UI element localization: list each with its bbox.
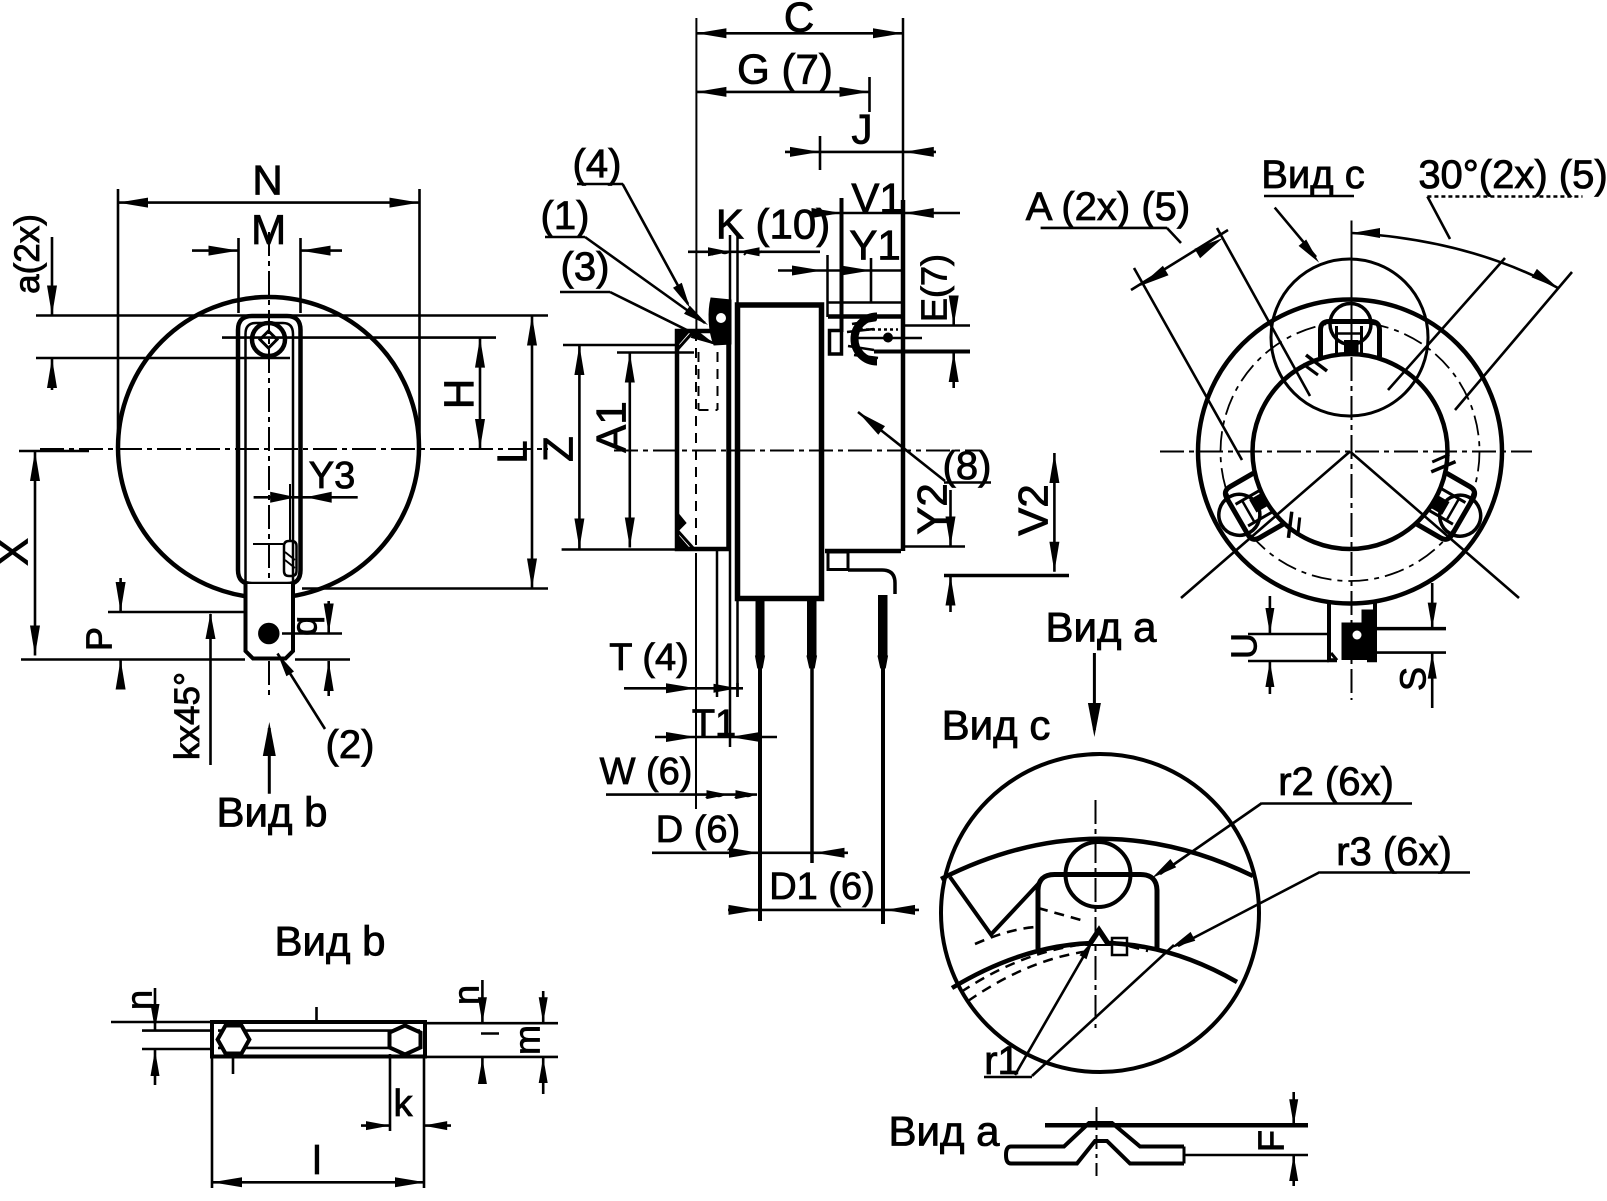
seal blob at body front top (filled)	[709, 298, 731, 345]
C left extension line	[695, 18, 697, 331]
svg-text:A (2x) (5): A (2x) (5)	[1026, 185, 1190, 229]
view a top plate line	[1045, 1123, 1308, 1128]
q extension lines	[282, 632, 342, 635]
rear cable clamp top plate	[828, 314, 901, 319]
top bayonet lug group	[1303, 304, 1380, 376]
dimension T line	[624, 687, 743, 690]
front gasket plate left line	[729, 235, 732, 747]
right view horizontal centerline	[1160, 451, 1532, 453]
bottom tab of left view	[246, 584, 294, 659]
view b bar outline	[212, 1022, 425, 1057]
svg-text:C: C	[784, 0, 814, 41]
detail shell inner arc	[952, 943, 1237, 988]
A dimension extension line 1	[1217, 228, 1310, 396]
item leader (4)	[623, 184, 688, 304]
dimension H line	[479, 338, 482, 449]
spring capsule seen in slot	[284, 541, 297, 576]
middle view body outline	[738, 305, 822, 599]
svg-text:a(2x): a(2x)	[8, 214, 47, 294]
E top extension line	[905, 324, 970, 327]
dimension P line and arrows	[119, 578, 122, 612]
cable grommet C-shape with hatch	[855, 317, 877, 362]
left view vertical centerline	[268, 232, 270, 700]
dimension Y1 line	[778, 269, 905, 272]
svg-text:(3): (3)	[561, 245, 610, 289]
Y3 extension line to capsule	[289, 484, 291, 540]
svg-text:P: P	[78, 627, 119, 651]
middle view centerline	[614, 450, 980, 452]
right view bottom tab	[1329, 600, 1337, 660]
dimension U line and arrows	[1269, 596, 1272, 634]
bayonet slot edge lines lower left	[1181, 452, 1350, 599]
a(2x) lower reference line	[36, 357, 290, 360]
svg-text:q: q	[283, 616, 324, 636]
Z bottom extension line	[562, 548, 679, 551]
T right extension tick	[736, 683, 739, 697]
dimension Z line	[578, 345, 581, 549]
view b left extension lines	[142, 1029, 212, 1032]
left view keyway slot inner line	[246, 323, 294, 584]
item leader (8)	[858, 412, 945, 481]
svg-text:l: l	[313, 1139, 322, 1183]
detail pin ball circle	[1066, 842, 1131, 907]
dimension Y2 line	[949, 490, 952, 547]
contact pin 2 thick	[807, 599, 817, 657]
dimension X line	[34, 451, 37, 656]
G right extension tick	[868, 77, 871, 112]
detail center peak mark	[1087, 927, 1111, 945]
A label leader	[1167, 228, 1181, 243]
svg-text:(8): (8)	[943, 444, 992, 488]
detail lug hat outline	[1038, 875, 1157, 950]
svg-text:F: F	[1250, 1130, 1291, 1152]
view b bar center tick	[315, 1007, 318, 1021]
svg-text:D (6): D (6)	[656, 809, 740, 851]
30 degree angular dimension arc	[1352, 233, 1558, 288]
clamp screw shank / V1 extension	[840, 198, 844, 332]
front plate right line / body edge extension	[736, 235, 739, 305]
svg-text:m: m	[506, 1025, 547, 1055]
detail small anchor rect	[1112, 938, 1127, 955]
svg-text:H: H	[436, 379, 483, 409]
svg-text:W (6): W (6)	[600, 751, 693, 793]
H top extension line through screw center	[222, 336, 496, 339]
leader r1 double	[1015, 940, 1093, 1075]
svg-text:r3 (6x): r3 (6x)	[1336, 830, 1452, 874]
svg-text:U: U	[1223, 633, 1264, 659]
J left extension tick	[819, 136, 822, 170]
dimension N line	[118, 201, 420, 204]
detail hidden spring dashed curves	[961, 944, 1086, 992]
bracket lower shelf	[901, 545, 965, 548]
svg-text:X: X	[0, 538, 37, 566]
svg-text:S: S	[1392, 667, 1433, 691]
svg-text:Вид b: Вид b	[216, 789, 327, 836]
dimension N extension lines	[117, 189, 120, 448]
A dimension line with arrows	[1131, 230, 1228, 290]
svg-text:kx45°: kx45°	[168, 672, 207, 760]
contact pin 2 wire	[810, 663, 814, 863]
detail centerline vertical	[1095, 800, 1097, 1028]
svg-text:Вид c: Вид c	[942, 702, 1051, 749]
svg-text:L: L	[489, 440, 536, 463]
svg-text:(2): (2)	[326, 723, 375, 767]
dimension F line and arrows	[1292, 1092, 1295, 1125]
svg-text:k: k	[394, 1083, 414, 1125]
Z top extension line	[563, 344, 677, 347]
view b direction arrow	[268, 728, 271, 794]
svg-text:r2 (6x): r2 (6x)	[1278, 760, 1394, 804]
clamp screw head rectangle	[830, 331, 842, 355]
label 30(2x)(5) leader	[1427, 197, 1450, 240]
left view: connector front, outer circle body	[118, 297, 419, 598]
dimension n left	[154, 988, 157, 1030]
lower-right lug (rotated copy)	[1402, 449, 1502, 551]
dimension k	[361, 1124, 390, 1127]
svg-text:M: M	[251, 206, 286, 253]
svg-text:Z: Z	[535, 436, 582, 462]
dimension T1 line	[655, 736, 777, 739]
svg-text:A1: A1	[588, 401, 635, 452]
svg-text:Вид a: Вид a	[1045, 604, 1157, 651]
dimension K line with wavy arrows	[688, 251, 820, 254]
svg-text:K (10): K (10)	[716, 201, 830, 248]
dimension l line	[212, 1181, 425, 1184]
item leader (2)	[278, 654, 326, 730]
dimension n right	[481, 980, 484, 1023]
item leader (3)	[610, 292, 713, 343]
dimension M extension lines	[237, 238, 240, 313]
lower-left lug (rotated copy)	[1207, 464, 1307, 566]
P top extension line	[108, 611, 245, 614]
30deg vertical reference line	[1351, 221, 1353, 346]
U extension lines	[1248, 633, 1329, 636]
T1 mid extension line	[716, 549, 719, 697]
view b right hexagon	[390, 1026, 421, 1055]
svg-text:V1: V1	[851, 175, 902, 222]
dimension L line	[531, 316, 534, 589]
bracket bottom-right rounded hook	[848, 570, 895, 594]
svg-text:D1 (6): D1 (6)	[769, 866, 875, 908]
detail dashes inside hat	[1038, 908, 1081, 920]
right view inner circle	[1253, 354, 1448, 549]
tab screw dot (filled)	[259, 623, 279, 643]
view c pointer leader arrow	[1275, 208, 1316, 257]
view a centerline	[1096, 1107, 1098, 1176]
dimension V2 line (right view)	[1053, 453, 1056, 572]
flange thread chamfer bottom-left	[677, 530, 694, 549]
right view vertical centerline	[1351, 240, 1353, 700]
view b top/bottom extension lines right	[425, 1022, 558, 1025]
leader r2	[1160, 803, 1262, 874]
dimension M line	[192, 249, 239, 252]
bolt circle dash-dot	[1221, 322, 1480, 581]
30deg inclined extension line	[1455, 272, 1572, 410]
l extension lines	[211, 1057, 214, 1188]
bracket foot step	[828, 552, 848, 570]
svg-text:G (7): G (7)	[737, 46, 833, 93]
a(2x) upper reference line	[36, 314, 548, 317]
rear end plane line	[902, 18, 905, 200]
dimension a(2x) vertical line and arrows	[51, 237, 54, 316]
E bottom extension line	[874, 350, 970, 354]
contact pin 1 wire	[758, 663, 762, 921]
right view outer circle	[1198, 300, 1502, 604]
dimension A1 line	[628, 353, 631, 548]
svg-text:E(7): E(7)	[913, 254, 954, 322]
X bottom extension line	[21, 658, 245, 661]
Y1 extension tick	[870, 258, 873, 302]
left view keyway slot outer outline	[238, 316, 301, 584]
flange thread chamfer top-left	[677, 331, 694, 350]
dimension W line with wavy arrows	[606, 793, 757, 796]
A dimension extension line 2	[1134, 268, 1242, 460]
grommet serrated top edge	[860, 328, 898, 331]
flange thread root dashed line	[695, 331, 697, 549]
dimension G line	[696, 91, 869, 94]
svg-text:n: n	[445, 985, 486, 1005]
svg-text:Y2: Y2	[909, 483, 956, 534]
svg-text:Y1: Y1	[849, 222, 900, 269]
dimension m	[542, 991, 545, 1023]
contact pin 3 thick	[878, 595, 888, 657]
svg-text:T (4): T (4)	[609, 637, 689, 679]
T left extension line	[695, 553, 697, 809]
leader r3	[1178, 872, 1320, 946]
detail shell outer arc	[941, 839, 1253, 879]
view c boundary circle	[1271, 259, 1428, 416]
capsule top reference line	[253, 543, 283, 545]
svg-text:J: J	[852, 106, 873, 153]
bracket lower edge	[825, 549, 901, 554]
item leader (1)	[585, 237, 705, 323]
clamp upper step	[828, 301, 902, 304]
svg-text:Вид с: Вид с	[1261, 153, 1364, 197]
flange hidden keyway dashed	[698, 352, 700, 410]
svg-text:T1: T1	[692, 703, 736, 745]
dimension q line and arrows	[327, 601, 330, 634]
svg-text:N: N	[252, 157, 282, 204]
detail slot notch V	[950, 877, 1041, 935]
k extension lines	[389, 1054, 392, 1131]
kx45 chamfer leader arrow	[209, 614, 212, 765]
dimension Y3 serrated line with facing arrows	[254, 496, 358, 499]
dimension E line	[952, 298, 955, 326]
30deg second construction line	[1388, 258, 1505, 390]
dimension D1 line	[728, 909, 919, 912]
L bottom extension line	[302, 587, 548, 590]
screw head circle at slot top	[252, 323, 285, 356]
svg-text:n: n	[118, 990, 159, 1010]
X top extension line	[19, 450, 89, 453]
A1 top extension line	[617, 351, 694, 354]
svg-text:(4): (4)	[573, 142, 622, 186]
svg-text:Вид b: Вид b	[274, 918, 385, 965]
left view horizontal centerline	[40, 448, 548, 450]
detail view boundary circle	[941, 754, 1259, 1072]
dimension S line and arrows	[1431, 583, 1434, 629]
view b bar inner chamfer lines	[218, 1029, 420, 1032]
dimension C line	[696, 32, 903, 35]
svg-text:(1): (1)	[541, 194, 590, 238]
view a plate bottom right line	[1184, 1154, 1308, 1157]
dimension V1 line	[810, 212, 960, 215]
svg-text:Вид a: Вид a	[888, 1108, 1000, 1155]
view b left hexagon	[218, 1026, 250, 1054]
S extension lines	[1375, 627, 1446, 631]
clamp bracket front edge	[826, 255, 829, 317]
coupling nut flange outline	[677, 331, 729, 549]
svg-text:30°(2x) (5): 30°(2x) (5)	[1418, 153, 1607, 197]
bottom tab screw (filled) with white dot	[1342, 610, 1374, 660]
bayonet slot edge lines lower right	[1350, 452, 1519, 599]
svg-text:V2: V2	[1010, 484, 1057, 535]
screw inner diamond	[260, 331, 277, 348]
svg-text:Y3: Y3	[309, 455, 355, 497]
contact pin 1 thick	[756, 599, 765, 657]
grommet axis line	[858, 337, 922, 340]
shared bottom extension for Y2 and V2	[944, 574, 1069, 578]
contact pin 3 wire	[881, 663, 885, 924]
dimension D line	[652, 851, 848, 854]
view a clip outer profile	[1011, 1123, 1184, 1147]
view b left hex center tick	[232, 1057, 235, 1074]
dimension J line	[785, 151, 936, 154]
